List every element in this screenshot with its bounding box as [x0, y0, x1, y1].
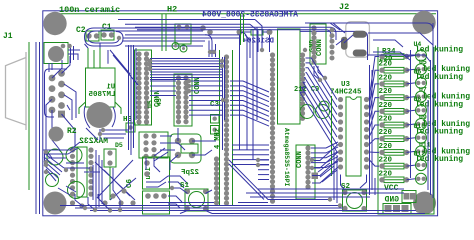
svg-text:MAX232: MAX232	[79, 137, 108, 146]
wire J2 thick bend	[300, 31, 368, 60]
resistor R34 220	[379, 170, 410, 182]
buffer U3 body	[346, 97, 361, 176]
pad square below C3	[211, 115, 220, 124]
board outline	[43, 11, 438, 216]
wire fuse to C2	[68, 44, 80, 63]
wire mid left horizontals	[100, 130, 128, 138]
svg-text:led kuning: led kuning	[415, 46, 463, 55]
label 22pF mirrored	[180, 169, 199, 177]
resistor R30 220	[379, 116, 410, 128]
label LM7805 mirrored	[88, 91, 116, 99]
svg-text:100n ceramic: 100n ceramic	[59, 5, 120, 15]
capacitor C2	[86, 31, 99, 41]
label CONN6 vertical	[296, 151, 304, 168]
capacitor C1	[101, 30, 114, 40]
wire bottom-left web	[44, 153, 64, 181]
LED D5	[407, 105, 427, 116]
mounting hole bottom-left	[44, 192, 67, 215]
wire S1 wires	[172, 188, 212, 214]
LED D1	[407, 50, 427, 61]
svg-text:ATMEGA8535-2008_V004: ATMEGA8535-2008_V004	[202, 11, 298, 20]
capacitor C5 box	[143, 157, 170, 189]
buffer U3 pads	[338, 97, 369, 170]
connector J1 shell	[6, 52, 27, 130]
wire atmega bottom horizontals	[232, 145, 269, 165]
socket U2 pads left column long	[270, 52, 275, 203]
wire top bends into conn3	[326, 27, 336, 42]
resistor R28 220	[379, 88, 410, 100]
svg-text:CONN: CONN	[296, 151, 304, 168]
capacitor C5 pads	[144, 160, 150, 166]
socket U2 outline	[278, 29, 301, 124]
wire green 245 left vertical	[331, 96, 333, 176]
fuse F1 box	[44, 43, 68, 64]
wire green vertical	[109, 167, 111, 200]
switch S1	[185, 189, 208, 211]
svg-text:C2: C2	[76, 26, 86, 35]
svg-text:J1: J1	[3, 32, 13, 41]
header CONN4 box	[139, 132, 168, 158]
via scatter	[44, 48, 420, 213]
wire J2 diagonal	[336, 35, 353, 45]
ic U6 MAX232 pads	[70, 147, 94, 196]
svg-text:U5: U5	[147, 100, 154, 108]
component cap mid	[175, 24, 191, 44]
capacitor C6b	[46, 174, 59, 187]
header pads x332	[330, 28, 335, 61]
LED D2	[407, 64, 427, 75]
wire bundle B horizontal	[189, 81, 223, 115]
wire right vertical rails	[428, 23, 433, 198]
wire J2 to right rail	[368, 33, 433, 62]
mounting hole top-left	[43, 12, 66, 35]
resistor R32 220	[379, 143, 410, 155]
capacitor C8a	[68, 182, 85, 199]
svg-text:led kuning: led kuning	[415, 128, 463, 137]
label MAX232 mirrored	[79, 137, 108, 146]
wire arcs around U1 hole	[84, 106, 115, 140]
label CONN1 vertical	[154, 90, 162, 107]
wire fan 245 left down	[312, 145, 338, 184]
resistor R25 220	[379, 54, 409, 64]
header CONN3 pads	[311, 25, 316, 64]
capacitor C6a	[47, 149, 63, 165]
wire J1 area diagonals	[64, 84, 76, 120]
LED D6	[407, 119, 427, 130]
wire 245 bottom to S2	[341, 175, 367, 191]
switch S2	[342, 190, 366, 211]
label 10u mirrored vertical	[145, 167, 153, 180]
wire max232 to bottom	[75, 168, 120, 211]
mounting hole bottom-right	[413, 192, 436, 215]
wire header5 verticals	[223, 57, 225, 150]
wire right mid verticals	[370, 65, 376, 195]
svg-text:Atmega8535-16PI: Atmega8535-16PI	[283, 128, 290, 187]
wire atmega left col down-left fan	[258, 160, 269, 180]
wire bottom bundle	[60, 203, 425, 214]
svg-text:CONN: CONN	[316, 39, 324, 56]
header CONN5b pads	[214, 156, 219, 205]
wire green stubs top	[241, 14, 244, 45]
regulator U1 body	[86, 68, 116, 107]
capacitor C7	[66, 147, 82, 163]
wire top right to J2	[305, 23, 410, 60]
resistor R31 220	[379, 129, 410, 141]
via C-loop	[117, 36, 121, 40]
LED D3	[407, 77, 427, 88]
wire bottom mid horizontals	[246, 189, 404, 197]
svg-text:22pF: 22pF	[180, 169, 199, 177]
wire fanout atmega right to 245	[300, 58, 337, 152]
header CONN4 pads	[143, 133, 156, 159]
wire J1 up to fuse	[52, 56, 70, 78]
wire top right rail	[330, 23, 433, 30]
svg-text:4 MHz: 4 MHz	[214, 128, 222, 149]
wire J1 left vertical traces	[36, 42, 40, 214]
svg-text:H2: H2	[167, 5, 177, 15]
power pads GND	[383, 204, 411, 214]
wire conn1-conn2 links	[150, 81, 176, 96]
header CONN1 pads	[136, 51, 149, 124]
wire bundle A horizontal	[150, 61, 222, 78]
power pads VCC	[402, 191, 416, 203]
wire H2 rail to right	[245, 20, 262, 59]
label C6 vertical	[126, 178, 134, 188]
crystal X1 inner	[181, 144, 198, 153]
LED D8	[407, 146, 427, 157]
wire extra bundleA edges	[150, 59, 220, 80]
header CONN2 pads	[176, 75, 189, 124]
svg-text:D5: D5	[115, 142, 123, 149]
wire crystal	[170, 128, 216, 170]
socket U2 pads right column	[300, 52, 305, 121]
capacitor C8	[300, 105, 314, 119]
wire 245 bottom verticals	[334, 150, 337, 203]
wire big diagonal	[229, 160, 330, 200]
connector J1 body outline	[28, 42, 30, 190]
wire top bundle turn down	[205, 27, 257, 160]
label ATmega8535-16PI vertical	[283, 128, 290, 187]
wire fanout header5 to atmega	[230, 81, 269, 126]
wire led col vertical	[410, 50, 412, 178]
wire green verticals	[162, 14, 166, 51]
label U1 mirrored	[107, 84, 115, 92]
label CONN3 vertical	[316, 39, 324, 56]
wire loop exit bundle	[123, 28, 240, 46]
svg-text:led kuning: led kuning	[415, 155, 463, 164]
capacitor C11	[319, 101, 329, 111]
wire bottom-left X	[95, 160, 136, 200]
header CONN2 outline	[174, 74, 192, 126]
fuse F1 hole	[48, 46, 64, 62]
header CONN6 outline	[296, 145, 315, 199]
wire fanout 245 right to resistors	[369, 57, 379, 167]
LED D10	[407, 173, 427, 184]
LED D9	[407, 160, 427, 171]
label 4 MHz vertical	[214, 128, 222, 149]
label U5 vertical	[147, 100, 154, 108]
led block outline	[378, 47, 434, 214]
transistor Q1 box	[143, 191, 170, 214]
capacitor CE near R2	[49, 127, 64, 142]
wire bottom-left verticals	[93, 150, 102, 210]
wire conn3 down	[314, 66, 325, 80]
label GND vertical	[309, 39, 317, 52]
label CONN2 vertical	[194, 77, 202, 94]
svg-text:R2: R2	[67, 127, 77, 136]
wire loops around C1 C2	[85, 28, 126, 46]
resistor R26 220	[379, 61, 410, 73]
wire U1 pins	[88, 48, 100, 68]
svg-text:led kuning: led kuning	[415, 73, 463, 82]
connector J2 outline	[346, 22, 370, 58]
wire J1 to MAX232	[46, 99, 75, 158]
ic U6 outline	[77, 147, 87, 197]
wire left bottom loops	[45, 142, 81, 195]
capacitor C10	[316, 105, 330, 119]
connector J2 SMD pads	[341, 31, 367, 57]
wire J1 loop	[45, 69, 68, 117]
label ATMEGA8535-2008_V004 mirrored	[202, 11, 298, 20]
wire diag cross CONN1	[110, 50, 138, 85]
svg-text:LM7805: LM7805	[88, 91, 116, 99]
mounting hole top-right	[412, 11, 435, 34]
svg-text:45: 45	[156, 98, 163, 106]
header CONN3 outline	[310, 24, 326, 64]
wire conn4 to crystal	[146, 148, 168, 187]
header CONN6 pads	[305, 145, 310, 189]
header CONN5 outline	[220, 50, 233, 206]
wire top green rail	[57, 13, 436, 15]
wire vertical bundle x130	[129, 45, 137, 155]
wire crystal-S1 area	[146, 136, 185, 172]
resistor R1 top	[237, 29, 243, 35]
connector J1 pin pads	[49, 70, 65, 118]
svg-text:led kuning: led kuning	[415, 100, 463, 109]
wire conn6 right fan	[311, 142, 338, 168]
regulator U1 tab	[79, 102, 121, 114]
LED D4	[407, 91, 427, 102]
pad square GND	[312, 173, 319, 180]
crystal X1 outline	[170, 134, 201, 163]
header CONN5 pads	[224, 54, 229, 205]
wire fuse down	[49, 63, 52, 72]
resistor R33 220	[379, 157, 410, 169]
svg-text:J2: J2	[339, 2, 349, 12]
via fuse side	[61, 44, 66, 49]
resistor R27 220	[379, 74, 410, 86]
label DS1820 mirrored	[242, 38, 274, 46]
wire R1 verticals	[240, 35, 270, 150]
via left column	[44, 150, 48, 154]
capacitor C4 box	[104, 149, 116, 167]
resistor R29 220	[379, 102, 410, 114]
LED D7	[407, 132, 427, 143]
pad H3 square	[126, 123, 135, 132]
via bottom-left pads row	[70, 188, 136, 208]
ring pads	[172, 43, 179, 50]
label 45 vertical	[156, 98, 163, 106]
header CONN1 outline	[135, 50, 152, 125]
regulator U1 hole	[87, 102, 113, 128]
label GND mirrored	[384, 196, 399, 205]
wire bundle top horizontal	[118, 20, 330, 35]
